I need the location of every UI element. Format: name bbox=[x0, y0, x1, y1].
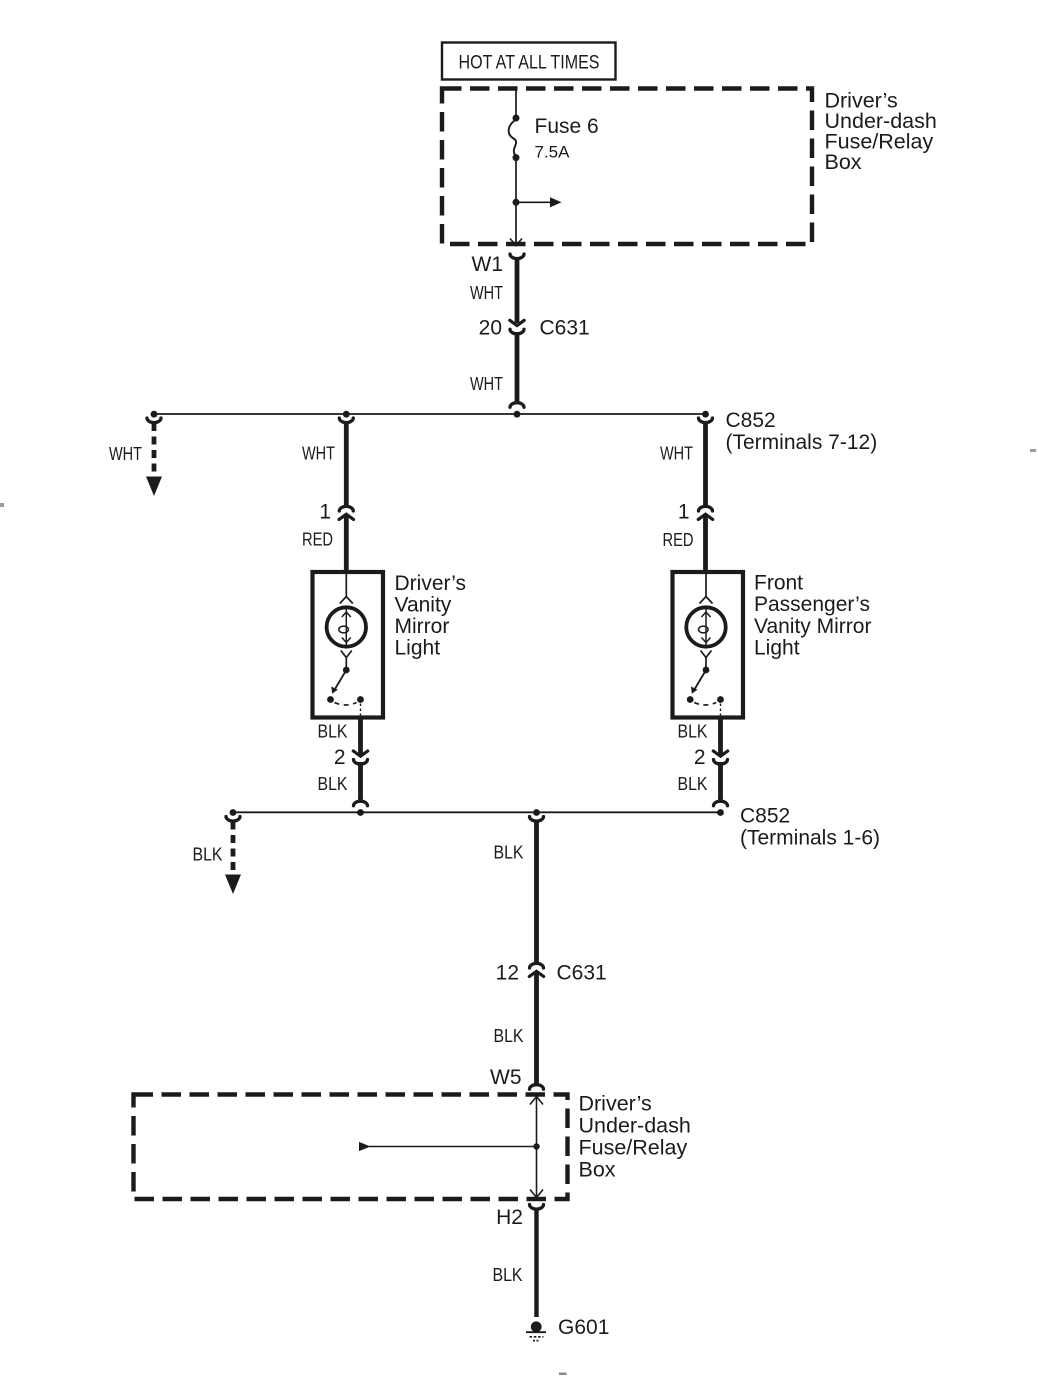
node: switch fixed contact (driver's) bbox=[327, 696, 334, 703]
svg-text:WHT: WHT bbox=[109, 444, 142, 464]
wire: dotted switch output inside box (passenger's) bbox=[720, 704, 722, 717]
svg-text:Vanity Mirror: Vanity Mirror bbox=[754, 615, 871, 638]
node: BLK bus left end bbox=[230, 809, 237, 816]
wire: horizontal WHT splice bus bbox=[154, 413, 706, 415]
svg-text:Driver’s: Driver’s bbox=[579, 1092, 652, 1116]
connector C631 pin 20 (in-line: male down / cup) bbox=[510, 320, 524, 334]
node: switch common (passenger's) bbox=[703, 667, 710, 674]
svg-text:BLK: BLK bbox=[318, 722, 348, 742]
svg-text:(Terminals 7-12): (Terminals 7-12) bbox=[726, 431, 878, 454]
svg-text:WHT: WHT bbox=[470, 283, 503, 303]
connector terminal W5 (cup down) bbox=[530, 1085, 544, 1090]
label: Driver's Under-dash Fuse/Relay Box (top) bbox=[825, 89, 937, 175]
node: center splice on BLK ground bus bbox=[533, 809, 540, 816]
svg-text:Box: Box bbox=[579, 1158, 616, 1182]
connector pin 2 (in-line: male down / cup), driver bbox=[353, 751, 367, 764]
svg-text:BLK: BLK bbox=[678, 774, 708, 794]
node: splice on WHT bus bbox=[514, 411, 521, 418]
svg-text:BLK: BLK bbox=[678, 722, 708, 742]
label: Driver's Under-dash Fuse/Relay Box (bottom) bbox=[579, 1092, 691, 1182]
terminal Y below bulb (driver's) bbox=[341, 651, 352, 669]
svg-text:Fuse/Relay: Fuse/Relay bbox=[579, 1136, 688, 1160]
node: switch common (driver's) bbox=[343, 667, 350, 674]
svg-text:Vanity: Vanity bbox=[395, 594, 452, 617]
svg-text:BLK: BLK bbox=[193, 845, 223, 865]
fuse F6 element (squiggle) bbox=[509, 120, 516, 157]
svg-text:RED: RED bbox=[302, 530, 333, 550]
wire: WHT down to connector 1 (passenger) bbox=[703, 423, 708, 507]
terminal Y below bulb (passenger's) bbox=[701, 651, 712, 669]
svg-text:W5: W5 bbox=[490, 1066, 522, 1089]
wire: fuse output down to box edge bbox=[515, 158, 517, 244]
svg-text:2: 2 bbox=[694, 746, 706, 769]
enclosure: Driver's Under-dash Fuse/Relay Box (top, dashed) bbox=[442, 89, 812, 245]
wire: internal feed to bulb (passenger's) bbox=[705, 574, 707, 597]
wire: WHT from C631 to splice bbox=[515, 332, 520, 404]
wire: internal feed to bulb (driver's) bbox=[345, 574, 347, 597]
wire: hot feed from box edge to fuse 6 bbox=[515, 89, 517, 119]
svg-text:12: 12 bbox=[496, 962, 519, 985]
arrow: exit chevron at bottom box bottom edge bbox=[530, 1190, 543, 1198]
arrow: internal connection chevron (passenger's) bbox=[700, 597, 713, 604]
dashed switch travel arc (passenger's) bbox=[694, 703, 716, 706]
switch arm with arrowhead (driver's) bbox=[331, 670, 346, 694]
svg-text:HOT AT ALL TIMES: HOT AT ALL TIMES bbox=[459, 53, 600, 74]
wire: WHT down to connector 1 (driver) bbox=[344, 423, 349, 507]
svg-text:W1: W1 bbox=[472, 253, 504, 276]
ground G601 symbol bbox=[526, 1321, 546, 1340]
svg-text:2: 2 bbox=[334, 746, 346, 769]
arrow: internal connection chevron (driver's) bbox=[340, 597, 353, 604]
wire: BLK from H2 to ground G601 bbox=[534, 1208, 538, 1317]
arrow: BLK continues to other circuits bbox=[225, 875, 241, 895]
label: driver's Vanity Mirror Light bbox=[395, 572, 467, 660]
wire: BLK from ground bus down to C631 pin 12 bbox=[534, 822, 539, 964]
svg-text:Fuse 6: Fuse 6 bbox=[535, 115, 599, 138]
wire: internal branch from other circuits (arrow at left end) bbox=[359, 1142, 537, 1151]
lamp filament (driver's) bbox=[339, 609, 351, 646]
node: branch junction to other circuits bbox=[513, 199, 520, 206]
node: switch output terminal (passenger's) bbox=[717, 696, 724, 703]
enclosure: Driver's Under-dash Fuse/Relay Box (bottom, dashed) bbox=[134, 1095, 568, 1200]
connector pin 1 (in-line: cup down / male up), driver bbox=[339, 506, 353, 519]
wire: BLK down to ground bus (driver) bbox=[358, 762, 363, 803]
connector terminal at ground bus (cup down), passenger bbox=[714, 801, 728, 806]
connector C631 pin 12 (in-line: cup down / male up) bbox=[529, 963, 543, 976]
node: fuse 6 top terminal bbox=[513, 115, 520, 122]
wire: horizontal BLK ground bus bbox=[233, 811, 721, 813]
switch arm with arrowhead (passenger's) bbox=[691, 670, 706, 694]
connector pin 2 (in-line: male down / cup), passenger bbox=[713, 751, 727, 764]
node: driver BLK splice on ground bus bbox=[357, 809, 364, 816]
svg-text:C852: C852 bbox=[726, 409, 776, 432]
wire: WHT stub to other circuits (dashed) bbox=[152, 423, 157, 478]
svg-text:BLK: BLK bbox=[318, 774, 348, 794]
svg-text:Mirror: Mirror bbox=[395, 615, 450, 638]
wire: dotted switch output inside box (driver's) bbox=[360, 704, 362, 717]
arrow: WHT continues to other circuits bbox=[146, 477, 162, 497]
connector pin 1 (in-line: cup down / male up), passenger bbox=[698, 506, 712, 519]
component box: driver's Vanity Mirror Light bbox=[313, 572, 384, 718]
connector terminal (cup), C852 terminals 7-12 bbox=[699, 418, 713, 423]
label: passenger's Vanity Mirror Light bbox=[754, 572, 871, 660]
node: splice to passenger's vanity light (C852) bbox=[702, 411, 709, 418]
svg-text:WHT: WHT bbox=[302, 444, 335, 464]
component box: passenger's Vanity Mirror Light bbox=[673, 572, 744, 718]
svg-text:BLK: BLK bbox=[494, 1026, 524, 1046]
connector terminal W1 (female cup) bbox=[510, 254, 524, 259]
node: splice to driver's vanity light bbox=[343, 411, 350, 418]
svg-text:Under-dash: Under-dash bbox=[579, 1114, 691, 1138]
lamp filament (passenger's) bbox=[699, 609, 711, 646]
scan artifact speck at left edge bbox=[0, 503, 4, 507]
connector terminal at splice (cup facing down) bbox=[510, 403, 524, 408]
svg-text:BLK: BLK bbox=[494, 843, 524, 863]
svg-text:Light: Light bbox=[754, 637, 800, 660]
connector terminal (cup), center BLK run bbox=[530, 817, 544, 822]
svg-text:G601: G601 bbox=[558, 1316, 609, 1339]
svg-text:RED: RED bbox=[663, 530, 694, 550]
svg-text:C852: C852 bbox=[740, 805, 790, 828]
connector terminal (cup), left WHT stub bbox=[147, 418, 161, 423]
connector terminal (cup), driver's branch bbox=[339, 418, 353, 423]
power source banner: HOT AT ALL TIMES box bbox=[442, 43, 616, 80]
svg-text:Light: Light bbox=[395, 637, 441, 660]
svg-text:H2: H2 bbox=[496, 1206, 523, 1229]
wire: BLK from driver light to connector 2 bbox=[358, 718, 363, 755]
node: passenger BLK splice on ground bus bbox=[717, 809, 724, 816]
arrow: entry chevron at bottom box top edge bbox=[530, 1097, 543, 1105]
svg-text:WHT: WHT bbox=[470, 374, 503, 394]
node: switch fixed contact (passenger's) bbox=[687, 696, 694, 703]
arrow: wire exit at top box edge bbox=[510, 239, 522, 246]
svg-text:1: 1 bbox=[319, 501, 331, 524]
svg-text:Front: Front bbox=[754, 572, 803, 595]
wire: branch to other circuits (arrow right) bbox=[516, 197, 562, 207]
svg-text:C631: C631 bbox=[540, 317, 590, 340]
svg-text:Box: Box bbox=[825, 150, 862, 174]
svg-text:7.5A: 7.5A bbox=[535, 143, 571, 162]
svg-text:Passenger’s: Passenger’s bbox=[754, 593, 870, 616]
connector terminal H2 (female cup) bbox=[530, 1205, 544, 1210]
wire: WHT from W1 down to C631 bbox=[515, 257, 520, 323]
node: fuse 6 bottom terminal bbox=[513, 154, 520, 161]
scan artifact mark at page bottom bbox=[559, 1373, 567, 1376]
node: switch output terminal (driver's) bbox=[357, 696, 364, 703]
svg-text:20: 20 bbox=[479, 317, 502, 340]
wire: BLK stub to other circuits (dashed) bbox=[231, 822, 236, 877]
wire: BLK from C631 pin 12 to W5 bbox=[534, 971, 539, 1085]
wire: BLK from passenger light to connector 2 bbox=[718, 718, 723, 755]
svg-text:WHT: WHT bbox=[660, 444, 693, 464]
node: internal splice (bottom box) bbox=[533, 1143, 539, 1149]
svg-text:(Terminals 1-6): (Terminals 1-6) bbox=[740, 827, 880, 850]
lamp bulb (driver's) bbox=[327, 607, 366, 646]
scan artifact speck at right edge bbox=[1030, 449, 1036, 452]
node: WHT bus left end bbox=[151, 411, 158, 418]
lamp bulb (passenger's) bbox=[686, 607, 725, 646]
wire: RED into passenger's vanity light bbox=[703, 514, 708, 572]
wire: RED into driver's vanity light bbox=[344, 514, 349, 572]
svg-text:BLK: BLK bbox=[493, 1265, 523, 1285]
connector terminal at ground bus (cup down), driver bbox=[354, 801, 368, 806]
svg-text:1: 1 bbox=[678, 501, 690, 524]
connector terminal (cup), left BLK stub bbox=[226, 817, 240, 822]
dashed switch travel arc (driver's) bbox=[335, 703, 357, 706]
svg-text:Driver’s: Driver’s bbox=[395, 572, 467, 595]
wire: BLK down to ground bus (passenger) bbox=[718, 762, 723, 803]
wire: internal ground run (bottom box) bbox=[536, 1097, 538, 1198]
svg-text:C631: C631 bbox=[557, 962, 607, 985]
